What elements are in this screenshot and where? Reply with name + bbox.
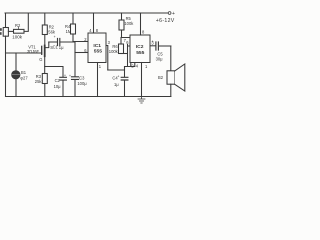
wire mic branch [15, 53, 17, 70]
svg-text:IC2: IC2 [136, 44, 144, 50]
label C4 1u [112, 75, 119, 87]
wire C3 drop [74, 53, 76, 97]
wire R2 drop from rail [44, 13, 46, 25]
label RP 100k [12, 23, 23, 39]
capacitor C5 [156, 42, 171, 50]
label pin1 [99, 64, 102, 69]
label pin3 IC2 [151, 40, 154, 45]
transistor VT1 [42, 42, 49, 56]
svg-text:+: + [152, 39, 154, 43]
capacitor C2 [60, 77, 67, 96]
svg-text:1μ: 1μ [114, 82, 119, 87]
label R2 56k [48, 25, 56, 35]
wire IC1 pin3 out [106, 46, 108, 71]
potentiometer RP [14, 27, 25, 33]
label pin6 IC2 [126, 40, 129, 45]
wire IC2 pin1 to ground [141, 63, 143, 97]
svg-text:6: 6 [126, 40, 129, 45]
speaker B2 [167, 64, 185, 91]
wire R5 drop [121, 13, 123, 20]
svg-text:4: 4 [136, 64, 139, 69]
svg-text:100k: 100k [12, 34, 23, 39]
capacitor C4 [121, 67, 128, 97]
op-amp U1 IC1 555 box [88, 33, 106, 63]
svg-text:C3: C3 [79, 75, 85, 80]
svg-text:+: + [64, 73, 66, 77]
label VT1 3DJ6F [27, 45, 53, 62]
svg-text:1: 1 [145, 64, 148, 69]
label R3 15k [35, 74, 43, 84]
wire source to C2 tie [45, 67, 63, 77]
wire pin6 horizontal [75, 52, 88, 54]
wire R2 to drain [44, 35, 46, 46]
svg-text:+: + [117, 75, 119, 79]
wire source down [44, 56, 46, 73]
op-amp U2 IC2 555 box [130, 35, 150, 63]
svg-text:8: 8 [96, 28, 99, 33]
label C3 100u [69, 74, 87, 86]
wire R6 bottom tie [121, 53, 128, 55]
label pin2 pin4 bottom [131, 64, 138, 69]
wire pin3 to pin5 pin4 bottom [108, 63, 135, 71]
wire node vertical pin2-pin6 [74, 42, 76, 53]
svg-text:1M: 1M [66, 29, 72, 34]
wire top V+ rail [5, 12, 168, 14]
wire speaker to rail [170, 84, 172, 96]
wire IC1 pins 4 8 to rail [93, 13, 95, 33]
svg-text:+: + [54, 35, 56, 39]
label C2 10u [54, 73, 66, 89]
label R1 clipped [0, 28, 2, 35]
label B1 [20, 70, 28, 81]
resistor R2 [42, 25, 47, 35]
wire left vertical [5, 13, 7, 97]
resistor R3 [42, 74, 47, 84]
label pin3 [108, 40, 111, 45]
wire IC1 pin1 to ground [97, 63, 99, 97]
wire R3 to rail [44, 84, 46, 97]
svg-text:+6-12V: +6-12V [156, 18, 175, 24]
label pin2 [84, 37, 87, 42]
label IC2 555 [136, 44, 145, 56]
svg-text:φ27: φ27 [20, 76, 28, 81]
svg-text:100k: 100k [109, 49, 119, 54]
wire pin2 horizontal [73, 41, 88, 43]
svg-text:4: 4 [89, 28, 92, 33]
svg-text:100μ: 100μ [77, 81, 87, 86]
label C1 1u [53, 35, 64, 50]
svg-text:IC1: IC1 [93, 43, 101, 49]
svg-text:30μ: 30μ [156, 57, 164, 62]
svg-text:C2: C2 [55, 78, 61, 83]
svg-text:B1: B1 [21, 70, 27, 75]
power terminal + [168, 12, 171, 15]
label pin7 [124, 38, 127, 43]
svg-text:3: 3 [108, 40, 111, 45]
resistor R4 [71, 24, 76, 34]
label R5 100k [124, 16, 134, 26]
svg-text:8: 8 [142, 29, 145, 34]
label C5 30u [152, 39, 164, 61]
label R6 100k [109, 44, 119, 54]
label pin8 IC2 [142, 29, 145, 34]
svg-text:C1: C1 [53, 45, 59, 50]
svg-text:+: + [172, 11, 175, 17]
resistor R1 [3, 28, 8, 37]
svg-text:10μ: 10μ [54, 84, 62, 89]
label R4 1M [65, 24, 72, 34]
svg-text:25k: 25k [35, 79, 43, 84]
svg-text:+: + [69, 74, 71, 78]
wire R5 to pin7 [122, 30, 131, 38]
wire R1 to RP [8, 30, 13, 32]
wire pin6 IC2 [128, 45, 131, 67]
svg-text:555: 555 [94, 49, 102, 55]
wire C5 to speaker [170, 46, 172, 71]
svg-text:R2: R2 [15, 23, 21, 28]
wire node A horizontal to gate [6, 52, 42, 54]
capacitor C3 [72, 77, 79, 80]
svg-text:3DJ6F: 3DJ6F [27, 49, 40, 54]
wire IC2 pin8 to rail [140, 13, 142, 35]
svg-text:1μ: 1μ [59, 45, 64, 50]
resistor R6 [119, 44, 124, 54]
wire IC2 pin3 out [150, 45, 155, 47]
label pin4 pin8 [89, 28, 99, 33]
label pin1 IC2 [145, 64, 148, 69]
svg-text:1: 1 [99, 64, 102, 69]
wire mic to ground rail [15, 79, 17, 97]
ground [138, 97, 145, 104]
svg-text:B2: B2 [158, 75, 164, 80]
svg-text:100k: 100k [124, 21, 134, 26]
resistor R5 [119, 20, 124, 30]
capacitor C1 [49, 39, 75, 46]
wire R6 top to pin7 node [120, 38, 122, 45]
wire R4 drop [72, 13, 74, 24]
label pin6 [84, 48, 87, 53]
wire bottom ground rail [6, 96, 171, 98]
wire RP right up to rail [24, 13, 28, 31]
label B2 [158, 75, 164, 80]
microphone B1 [12, 71, 20, 79]
wire R4 to pin2 node [72, 34, 74, 42]
svg-text:G: G [39, 57, 42, 62]
label +6-12V [156, 11, 175, 24]
label IC1 555 [93, 43, 102, 55]
svg-text:555: 555 [136, 50, 144, 56]
